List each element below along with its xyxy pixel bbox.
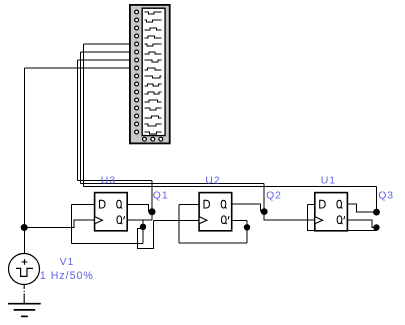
svg-text:Q3: Q3: [378, 190, 394, 201]
svg-text:U2: U2: [205, 175, 220, 186]
svg-text:U3: U3: [101, 175, 116, 186]
svg-text:Q2: Q2: [266, 190, 282, 201]
svg-text:Q1: Q1: [153, 190, 169, 201]
svg-text:1 Hz/50%: 1 Hz/50%: [40, 270, 94, 282]
svg-text:U1: U1: [321, 175, 336, 186]
svg-text:V1: V1: [60, 257, 75, 268]
